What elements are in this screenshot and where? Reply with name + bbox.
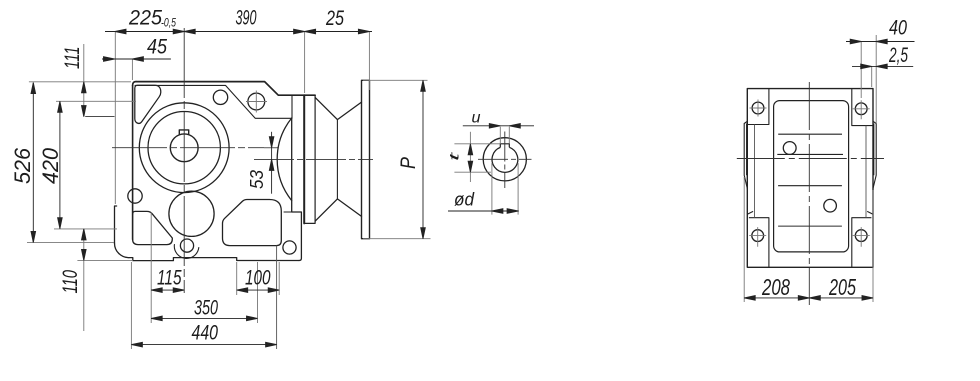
dim line 526 xyxy=(32,83,34,243)
bolt hole top-right xyxy=(248,93,265,110)
dim line 40 xyxy=(846,41,915,43)
side wall line right xyxy=(865,126,867,218)
dim line d xyxy=(448,210,519,212)
bottom-left pocket xyxy=(133,211,173,244)
arrows dim 225 xyxy=(115,29,126,34)
cover hole upper xyxy=(783,142,796,155)
svg-text:45: 45 xyxy=(147,35,168,59)
centerline horizontal output xyxy=(112,147,278,149)
dim line 440 xyxy=(131,344,276,346)
ext line left foot xyxy=(114,32,116,205)
bolt hole BL xyxy=(752,230,764,242)
ear dividers bottom-left xyxy=(747,211,769,267)
output shaft circle xyxy=(170,134,198,162)
ext line 350 right xyxy=(257,262,259,323)
bolt hole bottom-center xyxy=(180,239,193,252)
bolt hole cross top-right xyxy=(246,91,267,113)
ext lines d xyxy=(492,163,518,215)
svg-text:420: 420 xyxy=(38,147,63,184)
bolt hole TL xyxy=(752,102,764,114)
svg-text:350: 350 xyxy=(194,296,218,320)
dim line 225/390/25 xyxy=(105,31,372,33)
bolt cross BL xyxy=(749,227,766,247)
housing right face upper xyxy=(291,95,293,118)
svg-text:P: P xyxy=(396,156,420,169)
svg-text:ød: ød xyxy=(454,190,475,210)
housing top edge xyxy=(136,82,315,96)
bottom-center boss arc xyxy=(174,245,198,259)
intermediate circle xyxy=(169,191,214,236)
adapter plate left face xyxy=(303,95,305,223)
bolt hole left-edge xyxy=(128,189,142,203)
bell cone bottom xyxy=(315,199,361,221)
section centerlines xyxy=(478,132,532,189)
dim line 208/205 xyxy=(744,297,873,299)
bell cone top xyxy=(315,97,361,119)
shaft outer circle xyxy=(483,138,526,181)
ext line 440 left xyxy=(130,262,132,349)
svg-text:208: 208 xyxy=(761,274,790,300)
ext line hole 420 xyxy=(56,100,136,102)
housing left edge xyxy=(132,86,134,240)
ear dividers top-left xyxy=(747,89,769,125)
right side tab xyxy=(873,121,876,188)
ext line 111 bottom xyxy=(85,116,114,118)
bolt cross BR xyxy=(853,227,870,247)
ear dividers bottom-right xyxy=(852,211,873,267)
step line above right foot xyxy=(284,211,301,213)
bottom-right pocket xyxy=(223,200,282,246)
centerline horizontal right view xyxy=(737,158,884,160)
cover rib line lower xyxy=(778,225,842,227)
svg-text:110: 110 xyxy=(58,270,82,294)
arrows dim 25 xyxy=(305,29,316,34)
dim line 45 xyxy=(102,58,171,60)
svg-text:u: u xyxy=(472,110,481,127)
bolt cross TL xyxy=(750,100,767,117)
ext line 40 left xyxy=(860,42,862,99)
ext line 208 left xyxy=(743,177,745,302)
dim line t xyxy=(469,132,471,182)
ext line 110 bottom xyxy=(77,259,133,261)
bell neck xyxy=(336,120,338,199)
ear dividers top-right xyxy=(852,89,873,126)
ext line 25 right xyxy=(368,32,370,91)
dim line u xyxy=(463,125,534,127)
svg-text:100: 100 xyxy=(245,266,271,290)
dim line P xyxy=(422,80,424,238)
ext line 420 bottom xyxy=(54,228,117,230)
ext line 390 right / 25 left xyxy=(304,32,306,94)
svg-text:225: 225 xyxy=(128,6,163,30)
dim line 111 xyxy=(83,44,85,117)
dim line 110 xyxy=(83,229,85,331)
svg-text:205: 205 xyxy=(828,274,856,300)
adapter plate right face xyxy=(304,95,315,223)
housing top-left corner fillet xyxy=(133,82,136,86)
ext line 2.5 left xyxy=(871,66,873,87)
centerline vertical main xyxy=(183,28,185,293)
ext line 40/2.5 right xyxy=(875,35,877,124)
output boss outer circle xyxy=(139,103,229,193)
top-left pocket xyxy=(135,85,161,123)
dim line 420 xyxy=(59,101,61,228)
svg-text:53: 53 xyxy=(247,170,267,189)
ext lines u xyxy=(500,127,509,144)
input boss arc xyxy=(277,118,292,201)
ext line 526 bottom xyxy=(27,242,114,244)
ext lines t xyxy=(454,144,500,172)
ext lines 53 xyxy=(264,147,277,149)
foot left edge xyxy=(115,206,117,243)
svg-text:25: 25 xyxy=(325,6,345,30)
centerline input axis xyxy=(254,158,373,160)
ext line 100 left xyxy=(236,262,238,295)
svg-text:115: 115 xyxy=(157,266,182,290)
svg-text:111: 111 xyxy=(60,47,84,70)
cover rib lines xyxy=(777,134,843,186)
arrows dim 390 xyxy=(184,29,195,34)
bolt cross TR xyxy=(853,100,870,119)
side wall line left xyxy=(754,125,756,218)
output bearing circle xyxy=(148,112,220,184)
bolt hole top-left xyxy=(213,90,227,104)
housing inner top wall line xyxy=(135,85,292,118)
shaft bore circle with keyway slot xyxy=(492,147,518,172)
svg-text:2,5: 2,5 xyxy=(888,43,908,67)
dim line 350 xyxy=(151,317,257,319)
svg-text:390: 390 xyxy=(236,6,257,30)
bolt hole bottom-right xyxy=(283,241,296,254)
ext line 115/350 left xyxy=(150,212,152,323)
ext lines P xyxy=(363,80,431,238)
dim line 2.5 xyxy=(852,65,913,67)
bolt hole BR xyxy=(855,230,867,242)
bottom feet profile xyxy=(129,258,299,261)
ext line 100 right xyxy=(278,262,280,295)
dim line 115/100 xyxy=(151,289,279,291)
svg-text:526: 526 xyxy=(10,147,35,184)
svg-text:-0,5: -0,5 xyxy=(161,16,176,30)
ext line top edge left xyxy=(29,81,131,83)
bore keyway slot xyxy=(500,144,509,148)
left side tab xyxy=(744,121,747,188)
output shaft keyway xyxy=(179,130,188,134)
inner cover plate xyxy=(774,101,849,252)
housing right face lower xyxy=(292,118,302,260)
svg-text:40: 40 xyxy=(889,16,907,40)
motor flange xyxy=(362,80,370,238)
cover hole lower xyxy=(824,199,837,212)
ext line housing left top xyxy=(131,59,133,80)
ext line 100/440 right xyxy=(276,246,278,349)
svg-text:440: 440 xyxy=(192,321,219,345)
dim line 53 xyxy=(271,132,273,194)
bolt hole TR xyxy=(855,103,867,115)
ext line 205 right xyxy=(872,190,874,302)
centerline vertical right view xyxy=(808,82,810,305)
outer body rect xyxy=(747,89,873,268)
bottom-left fillet xyxy=(115,243,129,257)
